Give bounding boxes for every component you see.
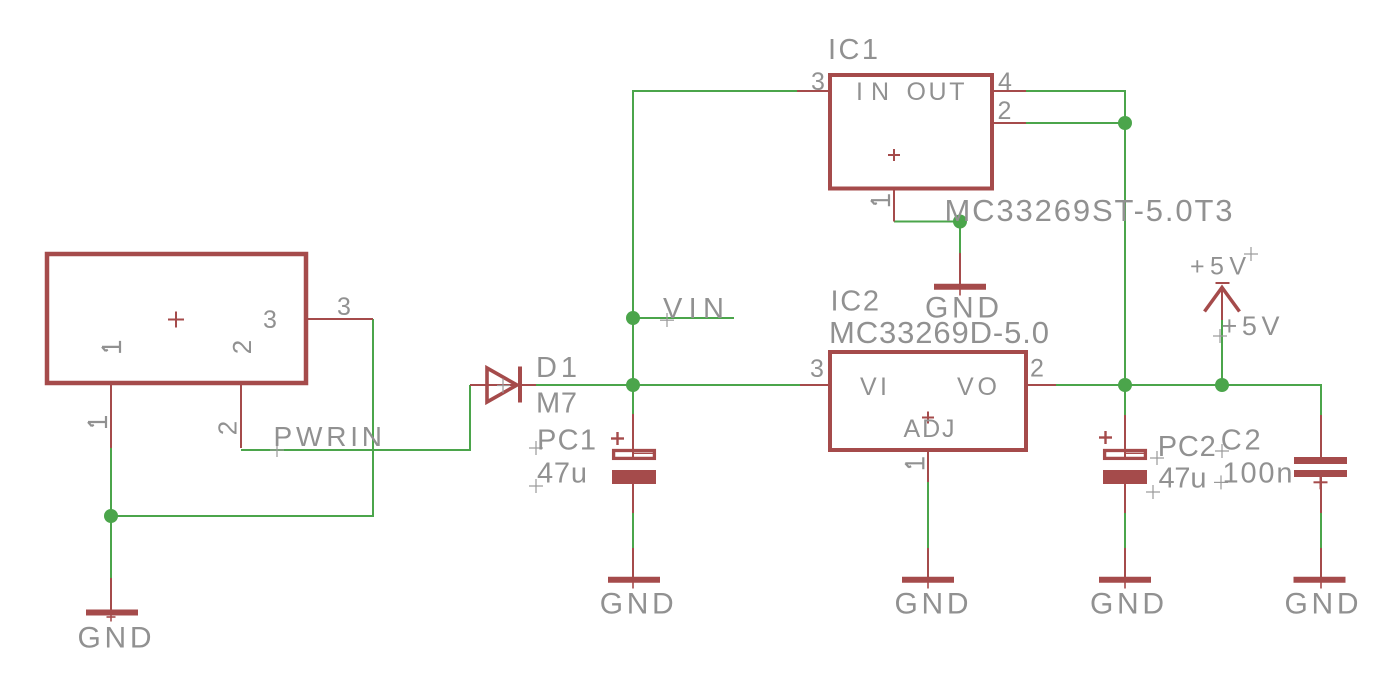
svg-text:3: 3 xyxy=(810,355,824,383)
svg-text:MC33269ST-5.0T3: MC33269ST-5.0T3 xyxy=(945,193,1233,228)
svg-text:VO: VO xyxy=(957,373,997,401)
svg-text:GND: GND xyxy=(1090,588,1164,621)
svg-text:C2: C2 xyxy=(1221,425,1261,457)
svg-text:PC2: PC2 xyxy=(1158,431,1216,463)
svg-text:3: 3 xyxy=(811,68,825,96)
svg-text:GND: GND xyxy=(925,291,999,324)
svg-text:PWRIN: PWRIN xyxy=(274,421,383,452)
svg-text:+5V: +5V xyxy=(1190,253,1246,281)
svg-text:4: 4 xyxy=(998,68,1012,96)
svg-text:GND: GND xyxy=(600,588,674,621)
svg-text:OUT: OUT xyxy=(907,78,965,106)
svg-text:2: 2 xyxy=(213,421,243,435)
svg-text:47u: 47u xyxy=(537,458,587,490)
svg-text:3: 3 xyxy=(337,293,351,321)
svg-text:ADJ: ADJ xyxy=(904,415,955,443)
svg-text:3: 3 xyxy=(263,306,277,334)
svg-text:IC2: IC2 xyxy=(831,286,880,318)
svg-text:IC1: IC1 xyxy=(828,34,878,66)
svg-text:IN: IN xyxy=(856,78,889,106)
svg-text:2: 2 xyxy=(1030,355,1044,383)
svg-text:VIN: VIN xyxy=(663,293,724,325)
svg-text:GND: GND xyxy=(1285,588,1359,621)
svg-text:M7: M7 xyxy=(536,388,577,420)
svg-text:2: 2 xyxy=(227,340,257,354)
svg-text:100n: 100n xyxy=(1223,457,1293,489)
svg-text:2: 2 xyxy=(998,97,1012,125)
svg-text:+5V: +5V xyxy=(1222,311,1280,341)
svg-text:VI: VI xyxy=(860,373,887,401)
svg-text:GND: GND xyxy=(78,622,152,655)
svg-text:PC1: PC1 xyxy=(537,424,596,456)
svg-text:47u: 47u xyxy=(1159,462,1207,494)
svg-text:D1: D1 xyxy=(536,352,577,384)
svg-text:GND: GND xyxy=(895,588,969,621)
